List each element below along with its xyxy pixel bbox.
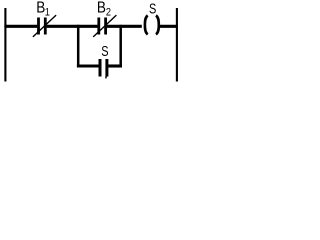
wire: left rail to contact B1 — [4, 25, 37, 28]
coil S (output) — [145, 15, 159, 34]
branch wire: right vertical — [119, 25, 122, 68]
wire: contact B2 to coil S — [107, 25, 142, 28]
contact B1 (normally-closed) — [33, 15, 56, 37]
svg-text:2: 2 — [106, 7, 111, 19]
wire: contact B1 to contact B2 — [47, 25, 98, 28]
label B2 — [97, 0, 111, 19]
contact B2 (normally-closed) — [93, 15, 116, 37]
label S (seal-in contact) — [101, 42, 109, 59]
contact S (normally-open, seal-in) — [100, 59, 107, 78]
branch wire: bottom rung left segment — [77, 64, 99, 67]
right power rail — [176, 8, 178, 82]
label S (coil) — [149, 0, 157, 17]
label B1 — [36, 0, 50, 19]
branch wire: bottom rung right segment — [108, 64, 122, 67]
svg-text:B: B — [97, 0, 106, 17]
svg-text:S: S — [149, 0, 157, 17]
branch wire: left vertical — [77, 25, 80, 68]
svg-text:S: S — [101, 42, 109, 59]
left power rail — [4, 8, 6, 82]
svg-text:1: 1 — [45, 7, 50, 19]
wire: coil S to right rail — [158, 25, 178, 28]
